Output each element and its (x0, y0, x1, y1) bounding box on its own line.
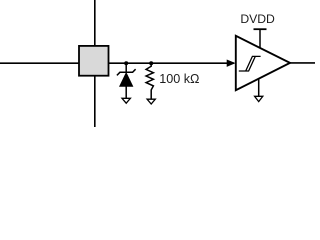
ground under buffer (255, 96, 263, 101)
svg-text:DVDD: DVDD (240, 12, 275, 26)
zener diode D1 cathode bar (117, 69, 136, 75)
wire diode stub (125, 63, 127, 72)
resistor R1 100 kOhm zigzag (146, 63, 153, 99)
wire output (290, 62, 316, 64)
schmitt hysteresis symbol (239, 56, 261, 71)
buffer input arrowhead (227, 60, 235, 67)
wire pad to buffer input (109, 62, 235, 64)
power rail DVDD bar (254, 28, 267, 30)
wire left input (0, 62, 80, 64)
node junction dot at diode (124, 61, 128, 65)
node junction dot at resistor (149, 61, 153, 65)
wire buffer to ground (258, 79, 260, 97)
zener diode D1 anode triangle (120, 73, 133, 86)
wire vertical through pad (94, 0, 96, 127)
ground under resistor (147, 99, 155, 104)
wire diode to ground (125, 86, 127, 98)
ground under diode (122, 98, 130, 103)
svg-text:100 kΩ: 100 kΩ (159, 72, 199, 86)
pad square (79, 46, 109, 76)
op-amp U1 schmitt buffer triangle (236, 36, 290, 90)
wire DVDD to buffer (259, 29, 261, 48)
